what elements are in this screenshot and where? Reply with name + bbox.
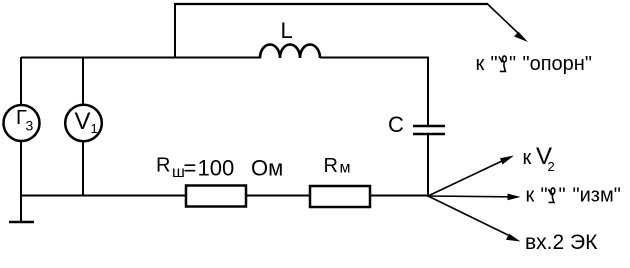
- svg-text:V: V: [75, 108, 91, 135]
- svg-text:2: 2: [548, 159, 555, 174]
- svg-text:"опорн": "опорн": [523, 53, 592, 75]
- svg-text:1: 1: [91, 121, 98, 136]
- label Rsh=100 Om: [156, 155, 283, 182]
- label k V2: [523, 143, 555, 174]
- svg-text:": ": [509, 53, 516, 75]
- wire top horizontal: [174, 3, 488, 5]
- wire mid horizontal right of inductor: [320, 57, 429, 59]
- svg-text:к: к: [526, 185, 535, 207]
- inductor L: [260, 44, 320, 58]
- svg-text:100: 100: [198, 156, 235, 181]
- symbol Ch (frequency-meter glyph) in oporn label: [499, 56, 506, 72]
- svg-text:": ": [559, 185, 566, 207]
- symbol Ch (frequency-meter glyph) in izm label: [548, 188, 554, 203]
- label k "Ch" "oporn": [476, 53, 592, 75]
- wire mid horizontal left of inductor: [21, 57, 261, 59]
- wire vertical from mid wire to capacitor: [427, 57, 429, 126]
- arrow to izm: [428, 194, 521, 201]
- svg-text:"изм": "изм": [573, 185, 621, 207]
- svg-text:R: R: [324, 155, 338, 177]
- svg-text:к: к: [523, 147, 532, 169]
- node junction: [427, 195, 429, 197]
- wire bottom horizontal left segment: [21, 195, 186, 197]
- wire vertical V1 branch lower: [82, 141, 84, 196]
- arrow to V2: [428, 156, 514, 197]
- svg-text:C: C: [388, 112, 404, 137]
- svg-text:м: м: [340, 160, 351, 177]
- svg-text:3: 3: [26, 118, 34, 134]
- capacitor C: [413, 126, 445, 134]
- svg-text:=: =: [184, 156, 197, 181]
- wire bottom right segment to junction: [370, 195, 428, 197]
- wire vertical V1 branch upper: [82, 57, 84, 105]
- svg-text:L: L: [281, 18, 293, 43]
- svg-text:R: R: [156, 155, 170, 177]
- svg-text:": ": [491, 53, 498, 75]
- label Rm: [324, 155, 351, 177]
- wire vertical left branch lower (generator to bottom wire): [20, 141, 22, 196]
- label k "Ch" "izm": [526, 185, 621, 207]
- arrow to oporn: [488, 4, 529, 42]
- svg-text:Ом: Ом: [251, 156, 283, 181]
- generator G3: [4, 105, 40, 141]
- resistor Rm: [310, 186, 370, 207]
- voltmeter V1: [65, 105, 102, 142]
- wire bottom between resistors: [246, 195, 310, 197]
- ground: [9, 221, 34, 223]
- svg-text:вх.2 ЭК: вх.2 ЭК: [525, 231, 598, 254]
- arrow to vh.2 EK: [428, 196, 521, 242]
- resistor Rsh: [186, 186, 246, 207]
- wire vertical from top wire down to mid wire: [174, 4, 176, 58]
- wire vertical from capacitor down to junction: [427, 134, 429, 197]
- svg-text:к: к: [476, 53, 485, 75]
- wire vertical to ground: [20, 196, 22, 222]
- svg-text:": ": [541, 185, 548, 207]
- wire vertical left branch upper (to generator): [20, 57, 22, 105]
